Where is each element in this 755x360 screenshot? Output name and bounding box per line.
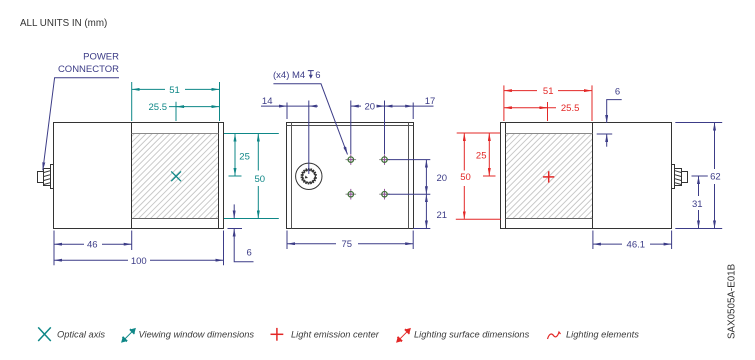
dim 20 top [351,105,361,107]
svg-text:51: 51 [169,85,180,96]
svg-text:Lighting elements: Lighting elements [566,330,639,340]
svg-text:17: 17 [425,96,436,107]
right view left strip line [505,123,507,229]
dim 21 vertical [425,194,427,228]
svg-text:POWER: POWER [83,52,119,63]
svg-text:51: 51 [543,86,554,97]
optical axis X mark (left view) [171,171,181,181]
left view cap split line [131,123,133,229]
svg-text:14: 14 [262,96,273,107]
svg-text:25.5: 25.5 [561,103,580,114]
dim 14 (outside arrows) [261,105,287,107]
middle view top chamfer line [287,125,414,127]
svg-text:100: 100 [131,256,147,267]
svg-text:25.5: 25.5 [149,102,168,113]
svg-text:CONNECTOR: CONNECTOR [58,64,119,75]
right view cap split line [592,123,594,229]
middle view connector circles [296,163,322,189]
red dim 25.5 (right view) [504,102,556,121]
teal dim 51 (left) [132,82,220,121]
middle top extension lines [261,101,434,175]
navy dim 6 (right view top) [597,100,622,147]
navy dim 46.1 (right view bottom) [593,231,672,250]
left view body [54,123,224,229]
left view viewing window hatch [132,134,218,218]
svg-text:6: 6 [247,248,252,259]
svg-text:50: 50 [460,172,471,183]
middle view left inner line [291,123,293,229]
right view power connector [672,165,688,189]
svg-text:21: 21 [437,210,448,221]
left view right strip line [218,123,220,229]
svg-text:46.1: 46.1 [627,240,646,251]
svg-text:Light emission center: Light emission center [291,330,380,340]
M4 leader [273,84,347,155]
red dim 51 (right view) [504,85,592,121]
svg-text:25: 25 [476,151,487,162]
middle view body [287,123,414,229]
dim 75 bottom [287,231,413,250]
red dim 50 [463,133,465,171]
svg-text:6: 6 [315,70,320,81]
dim 17 [385,105,414,107]
dim 46 [54,243,84,245]
right view lighting surface hatch [506,134,592,218]
teal dim 25.5 (left) [169,102,220,121]
left view power connector [38,165,54,189]
svg-text:20: 20 [365,101,376,112]
svg-text:62: 62 [710,172,721,183]
screw holes (x4) [346,154,390,199]
svg-text:31: 31 [692,199,703,210]
svg-text:Optical axis: Optical axis [57,330,105,340]
red left dims (right view) [456,133,501,219]
depth symbol [308,71,314,77]
legend optical axis X [38,327,51,341]
light emission center + mark [543,171,554,182]
legend lighting surface arrow [397,329,410,342]
legend lighting elements wave [548,332,561,339]
svg-text:(x4) M4: (x4) M4 [273,70,305,81]
svg-text:Lighting surface dimensions: Lighting surface dimensions [414,330,530,340]
dim 62 [714,123,716,170]
middle view right inner line [408,123,410,229]
legend light emission center + [271,328,284,341]
teal right extension lines (left view) [224,134,279,219]
svg-text:75: 75 [342,239,353,250]
dim 31 [692,175,708,177]
red dim 25 [488,133,490,176]
navy dim 6 (left view bottom right) [228,204,254,261]
middle right dims [388,160,430,229]
dim 100 [54,259,128,261]
navy dims 62 and 31 (right view right) [675,123,722,229]
POWER CONNECTOR leader [43,78,119,171]
svg-text:46: 46 [87,240,98,251]
svg-text:25: 25 [239,151,250,162]
svg-text:20: 20 [437,173,448,184]
right view body [501,123,672,229]
svg-text:ALL UNITS IN (mm): ALL UNITS IN (mm) [20,18,107,29]
svg-text:Viewing window dimensions: Viewing window dimensions [139,330,255,340]
teal dim 50 vertical [257,134,259,171]
legend viewing window arrow [122,329,135,342]
dim 20 vertical [425,160,427,195]
svg-text:6: 6 [615,87,620,98]
teal dim 25 vertical [234,134,236,177]
svg-text:50: 50 [255,174,266,185]
navy bottom dims (left view) [54,231,224,266]
svg-text:SAX0505A-E01B: SAX0505A-E01B [727,263,738,339]
